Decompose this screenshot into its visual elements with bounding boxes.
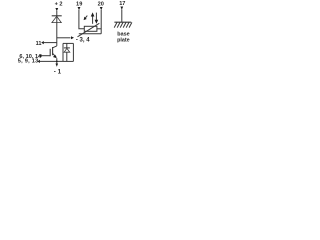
svg-text:plate: plate — [117, 37, 130, 43]
terminal arrow pin 17 — [120, 7, 123, 10]
wire collector vertical — [56, 11, 58, 46]
terminal arrow pin 20 — [100, 7, 103, 10]
svg-text:- 1: - 1 — [54, 68, 62, 75]
terminal arrow pin 2 — [55, 8, 58, 11]
wire sensor bottom — [79, 33, 101, 35]
varistor diagonal — [78, 23, 100, 37]
svg-text:- 3, 4: - 3, 4 — [76, 38, 90, 44]
wire pin 19 — [79, 10, 84, 29]
wire pin 20 — [100, 10, 102, 34]
wire pin 17 — [121, 9, 123, 22]
svg-text:17: 17 — [119, 1, 125, 7]
wire emitter vertical — [56, 58, 58, 64]
wire gate — [41, 55, 50, 57]
transistor Q1 IGBT — [50, 46, 57, 58]
wire to pins 3,4 — [57, 37, 71, 39]
diode D1 — [52, 16, 62, 23]
svg-text:19: 19 — [76, 1, 83, 7]
terminal arrow emitter aux — [37, 60, 40, 63]
wire resistor to 20 — [97, 28, 101, 30]
svg-text:11: 11 — [36, 41, 42, 47]
plug contact arrow up — [91, 12, 95, 23]
diode D2 outline box — [63, 43, 73, 61]
svg-text:20: 20 — [98, 1, 104, 7]
terminal arrow pins 3,4 — [71, 36, 74, 39]
plug contact arrow down — [95, 13, 99, 24]
junction emitter node — [56, 61, 58, 63]
svg-text:5, 9, 13: 5, 9, 13 — [18, 59, 39, 65]
plug contact arrow small — [84, 16, 88, 21]
svg-text:+ 2: + 2 — [55, 2, 63, 8]
ground — [114, 22, 132, 27]
terminal arrow pin 11 — [41, 41, 44, 44]
diode D2 — [64, 43, 70, 61]
wire emitter aux — [40, 60, 63, 62]
wire collector aux 11 — [44, 42, 57, 44]
terminal arrow pin 19 — [78, 7, 81, 10]
terminal arrow pin 1 — [56, 64, 59, 67]
resistor R temp sensor — [84, 26, 97, 31]
terminal arrow gate — [39, 54, 42, 57]
